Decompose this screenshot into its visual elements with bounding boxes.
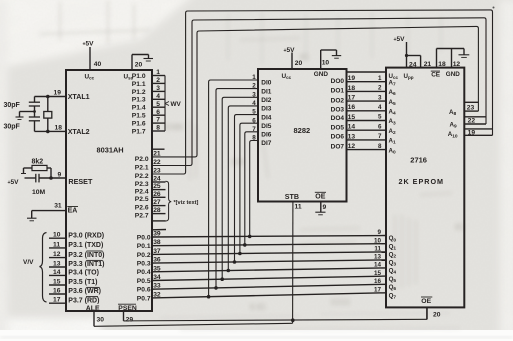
svg-text:EA: EA: [68, 208, 78, 215]
svg-text:4: 4: [252, 100, 256, 107]
svg-text:22: 22: [468, 117, 476, 124]
svg-text:DO5: DO5: [331, 125, 345, 132]
svg-text:5: 5: [378, 114, 382, 121]
svg-text:P3.1 (TXD): P3.1 (TXD): [68, 242, 103, 249]
svg-text:2: 2: [156, 77, 160, 84]
svg-text:1: 1: [156, 69, 160, 76]
svg-text:7: 7: [156, 117, 160, 124]
svg-text:15: 15: [374, 270, 382, 277]
svg-text:14: 14: [348, 124, 356, 131]
svg-text:12: 12: [53, 251, 61, 258]
svg-text:38: 38: [153, 239, 161, 246]
svg-text:P2.7: P2.7: [135, 213, 149, 220]
svg-text:39: 39: [153, 231, 161, 238]
svg-text:6: 6: [378, 123, 382, 130]
svg-text:6: 6: [156, 109, 160, 116]
svg-text:XTAL1: XTAL1: [68, 93, 90, 101]
svg-text:P2.2: P2.2: [135, 173, 149, 180]
svg-text:2: 2: [378, 85, 382, 92]
svg-text:4: 4: [378, 104, 382, 111]
svg-text:21: 21: [153, 151, 161, 158]
svg-text:P3.5 (T1): P3.5 (T1): [68, 279, 97, 286]
svg-text:V/V: V/V: [23, 259, 34, 266]
svg-text:4: 4: [156, 93, 160, 100]
svg-text:8: 8: [156, 125, 160, 132]
svg-text:P2.0: P2.0: [135, 156, 149, 163]
svg-text:14: 14: [53, 269, 61, 276]
svg-text:20: 20: [433, 311, 441, 318]
svg-text:36: 36: [153, 257, 161, 264]
svg-text:DI5: DI5: [261, 123, 272, 130]
svg-text:DI0: DI0: [261, 80, 272, 87]
svg-text:13: 13: [348, 133, 356, 140]
svg-text:1: 1: [252, 74, 256, 81]
svg-text:DI4: DI4: [261, 114, 272, 121]
svg-text:ALE: ALE: [86, 305, 100, 312]
svg-text:3: 3: [252, 91, 256, 98]
svg-text:32: 32: [153, 291, 161, 298]
svg-text:DO7: DO7: [331, 143, 345, 150]
svg-text:10M: 10M: [32, 189, 46, 196]
svg-text:16: 16: [348, 104, 356, 111]
svg-text:7: 7: [378, 133, 382, 140]
svg-text:8031AH: 8031AH: [97, 146, 124, 155]
svg-text:RESET: RESET: [68, 177, 93, 186]
svg-text:11: 11: [53, 241, 60, 248]
svg-text:11: 11: [374, 246, 381, 253]
svg-text:P0.6: P0.6: [137, 287, 151, 294]
svg-text:3: 3: [156, 85, 160, 92]
svg-text:10: 10: [53, 232, 61, 239]
svg-text:P2.6: P2.6: [135, 205, 149, 212]
svg-text:8: 8: [378, 143, 382, 150]
svg-text:17: 17: [374, 287, 382, 294]
svg-text:2K EPROM: 2K EPROM: [399, 177, 445, 186]
svg-text:P0.0: P0.0: [137, 234, 151, 241]
svg-text:P2.1: P2.1: [135, 164, 149, 171]
svg-text:23: 23: [153, 168, 161, 175]
svg-text:DO6: DO6: [331, 134, 345, 141]
svg-text:P1.5: P1.5: [132, 113, 146, 120]
svg-text:35: 35: [153, 265, 161, 272]
svg-text:5: 5: [252, 109, 256, 116]
svg-text:+5V: +5V: [8, 179, 20, 186]
svg-text:8 85: 8 85: [250, 302, 266, 312]
svg-text:8k2: 8k2: [32, 159, 44, 166]
svg-text:30: 30: [97, 316, 105, 323]
svg-text:3: 3: [378, 94, 382, 101]
svg-text:DI6: DI6: [261, 132, 272, 139]
svg-text:13: 13: [53, 260, 61, 267]
svg-text:GND: GND: [446, 71, 460, 78]
svg-text:+5V: +5V: [394, 36, 406, 43]
svg-text:DI7: DI7: [261, 140, 272, 147]
svg-text:14: 14: [374, 262, 382, 269]
svg-text:P3.2 (INT0): P3.2 (INT0): [68, 252, 104, 259]
svg-text:P0.1: P0.1: [137, 243, 151, 250]
svg-text:DO3: DO3: [331, 106, 345, 113]
svg-text:DO4: DO4: [331, 115, 345, 122]
svg-text:OE: OE: [421, 298, 431, 305]
svg-text:GND: GND: [314, 71, 329, 78]
svg-text:STB: STB: [285, 193, 299, 201]
svg-text:PSEN: PSEN: [118, 305, 137, 312]
svg-text:OE: OE: [315, 193, 325, 200]
svg-text:26: 26: [153, 191, 161, 198]
svg-text:22: 22: [153, 159, 161, 166]
svg-text:37: 37: [153, 248, 161, 255]
svg-text:10: 10: [322, 59, 330, 66]
svg-text:15: 15: [53, 278, 61, 285]
svg-text:29: 29: [126, 316, 134, 323]
svg-text:DO1: DO1: [331, 88, 345, 95]
svg-text:13: 13: [374, 254, 382, 261]
svg-text:16: 16: [53, 287, 61, 294]
svg-text:P2.3: P2.3: [135, 181, 149, 188]
svg-text:DI1: DI1: [261, 88, 272, 95]
svg-text:8388: 8388: [165, 122, 184, 132]
svg-text:24: 24: [409, 61, 417, 68]
svg-text:8282: 8282: [294, 126, 311, 135]
svg-text:+5V: +5V: [83, 41, 95, 48]
svg-text:23: 23: [467, 105, 475, 112]
svg-text:8: 8: [252, 135, 256, 142]
svg-text:CE: CE: [431, 72, 441, 79]
svg-text:P0.2: P0.2: [137, 252, 151, 259]
svg-text:10: 10: [374, 237, 382, 244]
svg-text:5: 5: [156, 101, 160, 108]
svg-text:2716: 2716: [410, 156, 427, 165]
svg-text:P1.1: P1.1: [132, 81, 146, 88]
svg-text:27: 27: [153, 199, 161, 206]
svg-text:P3.4 (TO): P3.4 (TO): [68, 270, 99, 277]
svg-text:19: 19: [54, 90, 62, 97]
svg-text:P3.0 (RXD): P3.0 (RXD): [68, 232, 104, 239]
svg-text:P0.4: P0.4: [137, 269, 151, 276]
svg-text:DI3: DI3: [261, 106, 272, 113]
svg-text:31: 31: [54, 203, 62, 210]
svg-text:19: 19: [348, 75, 356, 82]
svg-text:P0.5: P0.5: [137, 278, 151, 285]
svg-text:12: 12: [348, 143, 356, 150]
svg-text:28: 28: [153, 207, 161, 214]
svg-text:XTAL2: XTAL2: [68, 128, 90, 136]
svg-text:20: 20: [135, 62, 143, 69]
svg-text:24: 24: [153, 176, 161, 183]
svg-text:9: 9: [58, 171, 62, 178]
svg-text:P1.7: P1.7: [132, 128, 146, 135]
svg-text:DO0: DO0: [331, 78, 345, 85]
svg-text:16: 16: [374, 278, 382, 285]
svg-text:34: 34: [153, 274, 161, 281]
svg-text:17: 17: [53, 297, 61, 304]
svg-text:358: 358: [230, 157, 244, 167]
svg-text:30pF: 30pF: [4, 102, 21, 109]
svg-text:85: 85: [455, 222, 465, 232]
svg-text:P1.3: P1.3: [132, 97, 146, 104]
svg-text:P0.3: P0.3: [137, 261, 151, 268]
svg-text:WV: WV: [171, 101, 182, 108]
svg-text:P2.5: P2.5: [135, 196, 149, 203]
svg-text:7: 7: [252, 126, 256, 133]
svg-text:12: 12: [453, 61, 461, 68]
svg-text:33: 33: [153, 283, 161, 290]
svg-text:30pF: 30pF: [4, 124, 21, 131]
svg-text:P3.6 (WR): P3.6 (WR): [68, 288, 101, 295]
svg-text:11111: 11111: [330, 297, 351, 307]
svg-text:P1.0: P1.0: [132, 73, 146, 80]
svg-text:40: 40: [94, 61, 102, 68]
svg-text:1: 1: [378, 75, 382, 82]
svg-text:P3.7 (RD): P3.7 (RD): [68, 297, 99, 304]
svg-text:18: 18: [348, 85, 356, 92]
svg-text:17: 17: [348, 95, 356, 102]
svg-text:18: 18: [438, 61, 446, 68]
svg-text:*[viz text]: *[viz text]: [174, 200, 199, 206]
svg-text:20: 20: [295, 60, 303, 67]
svg-text:11: 11: [295, 203, 302, 210]
svg-text:21: 21: [424, 61, 432, 68]
svg-text:P0.7: P0.7: [137, 295, 151, 302]
svg-text:6: 6: [252, 117, 256, 124]
svg-text:P1.2: P1.2: [132, 89, 146, 96]
svg-text:+5V: +5V: [284, 47, 296, 54]
svg-text:DI2: DI2: [261, 97, 272, 104]
svg-text:P3.3 (INT1): P3.3 (INT1): [68, 261, 104, 268]
svg-text:19: 19: [468, 129, 476, 136]
svg-text:2: 2: [252, 83, 256, 90]
svg-text:9: 9: [323, 204, 327, 211]
svg-text:P2.4: P2.4: [135, 189, 149, 196]
svg-text:DO2: DO2: [331, 97, 345, 104]
svg-text:P1.6: P1.6: [132, 121, 146, 128]
svg-text:P1.4: P1.4: [132, 105, 146, 112]
svg-text:25: 25: [153, 183, 161, 190]
svg-text:15: 15: [348, 114, 356, 121]
svg-text:9: 9: [377, 229, 381, 236]
svg-text:18: 18: [55, 125, 63, 132]
